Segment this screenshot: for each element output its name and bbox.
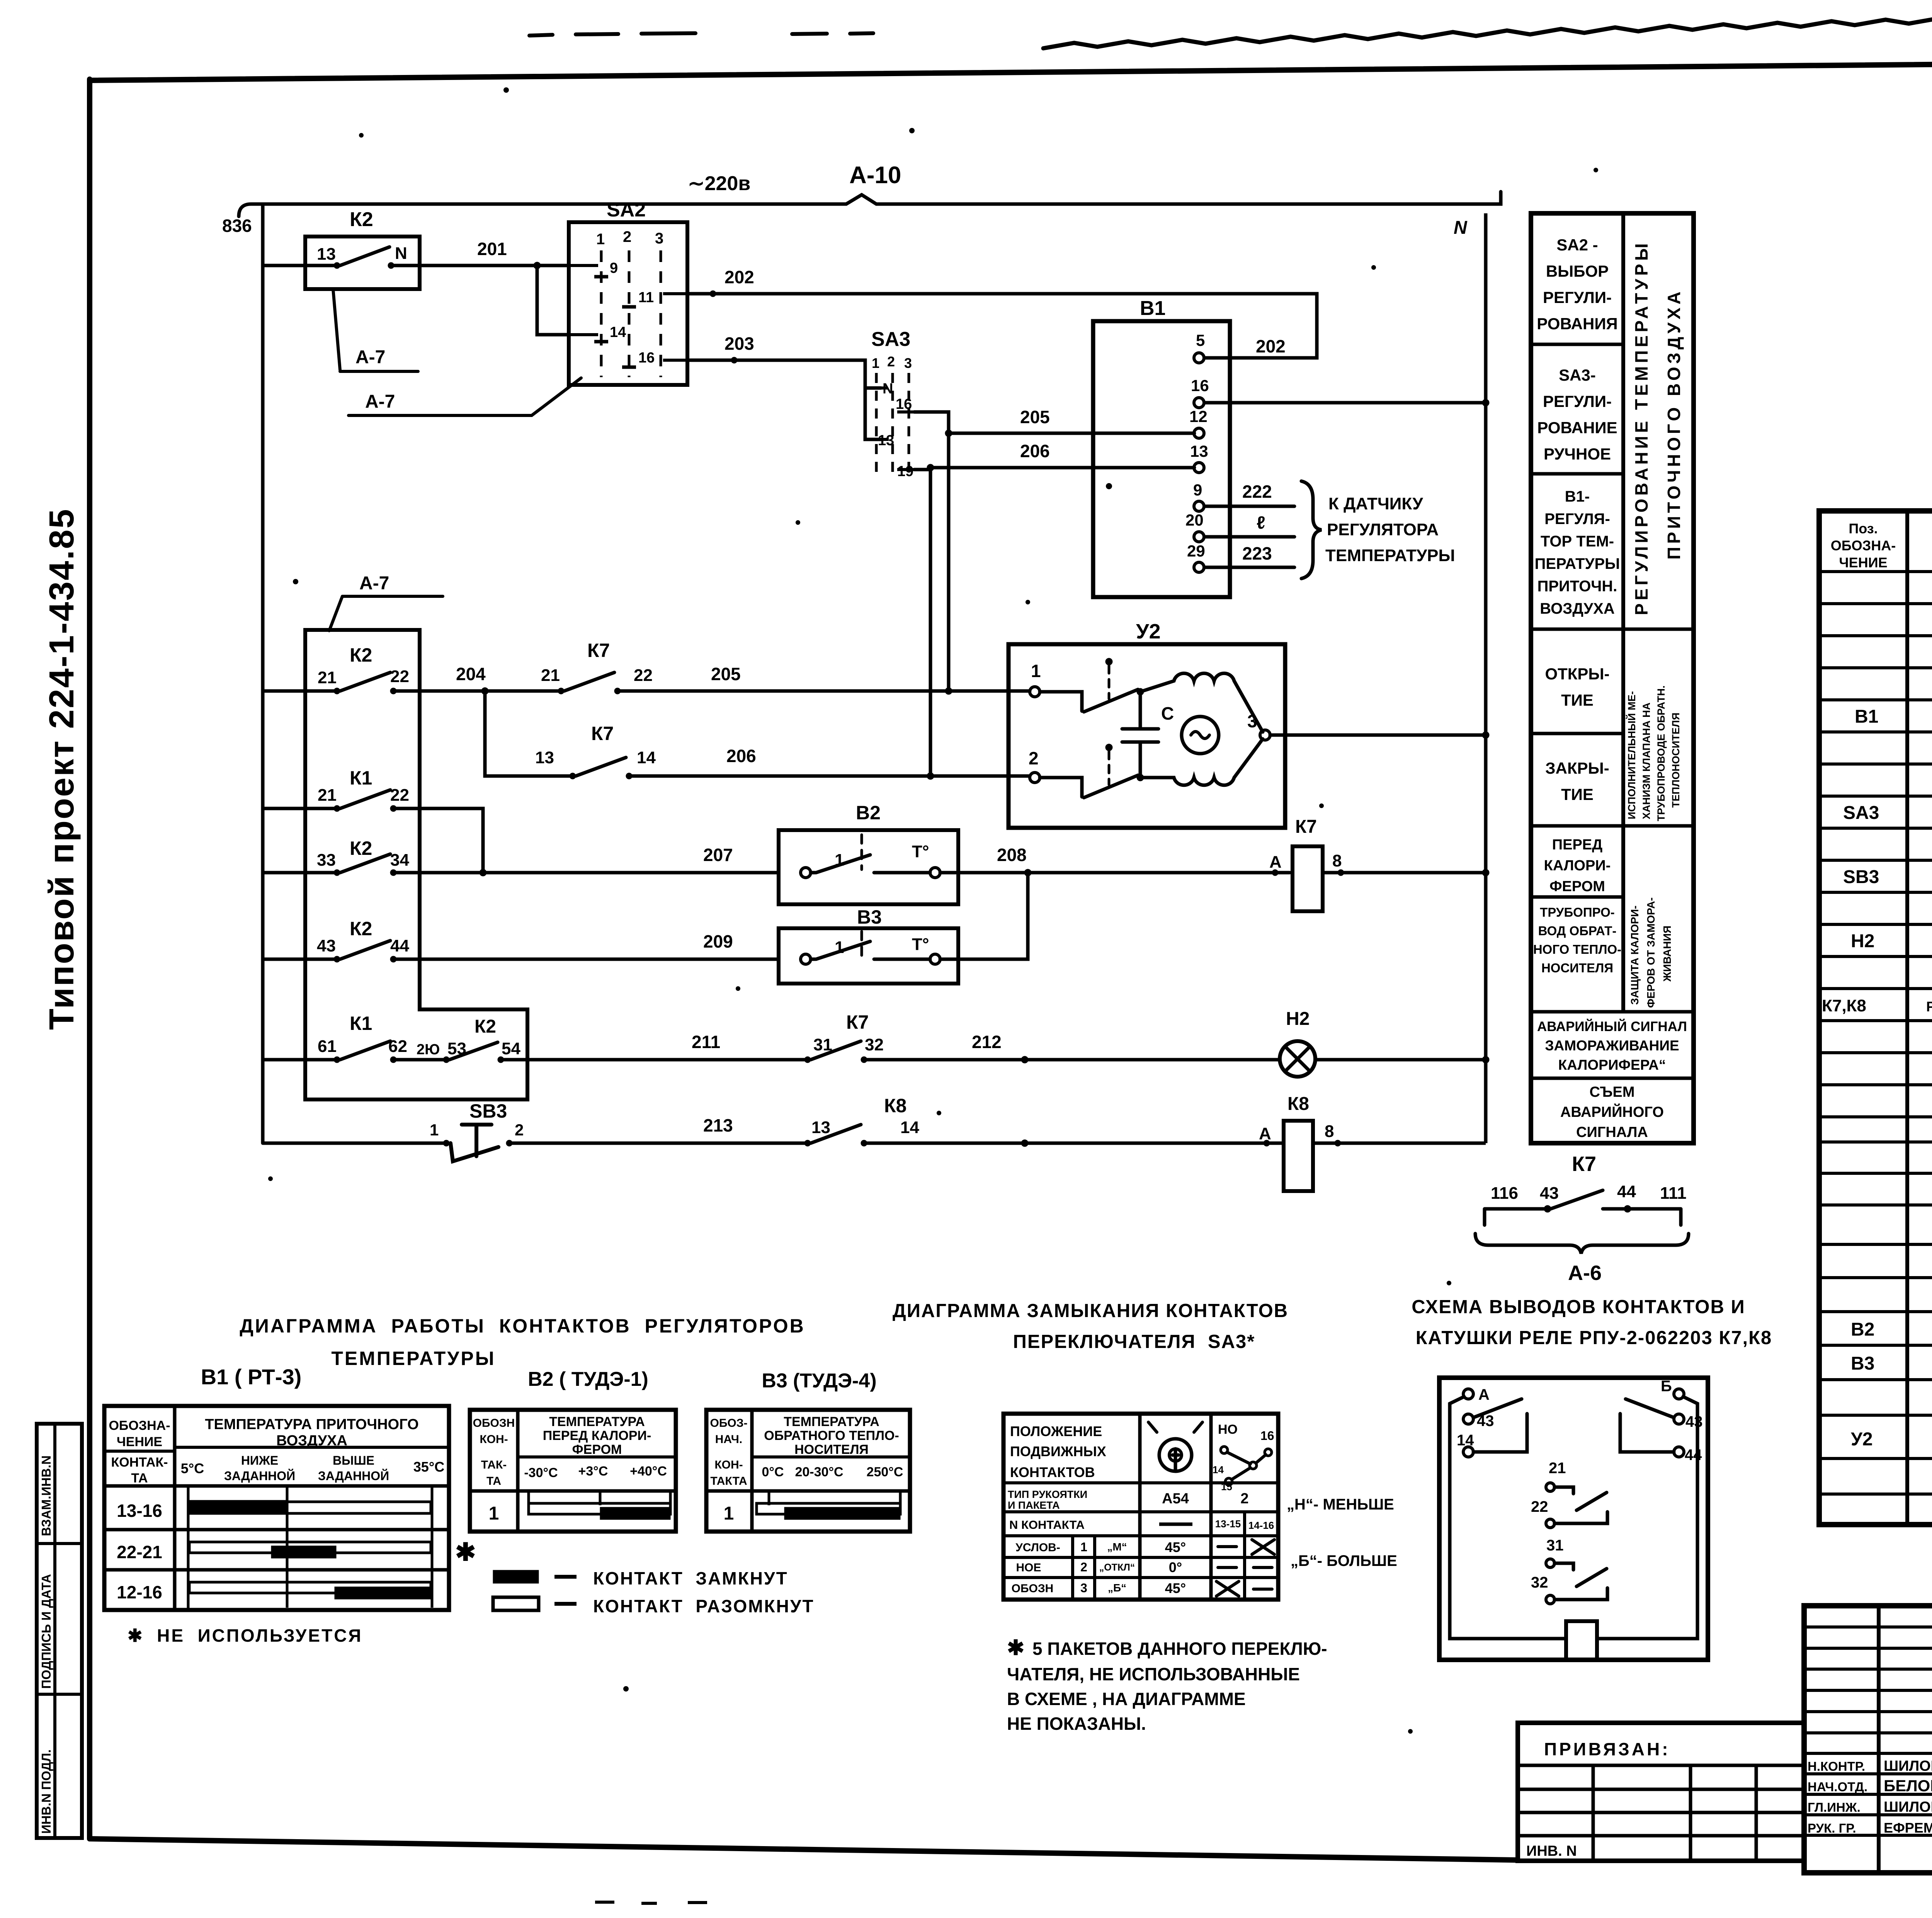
svg-text:Н.КОНТР.: Н.КОНТР.: [1808, 1759, 1865, 1773]
svg-text:SA3: SA3: [871, 328, 910, 351]
svg-text:ЗАМОРАЖИВАНИЕ: ЗАМОРАЖИВАНИЕ: [1545, 1038, 1679, 1053]
svg-text:РЕГУЛИРОВАНИЕ ТЕМПЕРАТУРЫ: РЕГУЛИРОВАНИЕ ТЕМПЕРАТУРЫ: [1631, 240, 1651, 615]
svg-text:ДИАГРАММА РАБОТЫ КОНТАКТОВ: ДИАГРАММА РАБОТЫ КОНТАКТОВ РЕГУЛЯТОРОВ: [240, 1315, 805, 1337]
svg-text:СИГНАЛА: СИГНАЛА: [1576, 1124, 1648, 1140]
parts row SB3: [1843, 867, 1932, 887]
svg-text:ВЗАМ.ИНВ.N: ВЗАМ.ИНВ.N: [39, 1455, 53, 1536]
parts row U2: [1851, 1421, 1932, 1452]
label N: [1454, 218, 1468, 238]
label 2: [515, 1121, 524, 1139]
svg-text:ТОР ТЕМ-: ТОР ТЕМ-: [1541, 533, 1614, 550]
B1 pin numbers: [1185, 331, 1209, 560]
annotation column frame: [1531, 213, 1694, 1143]
svg-text:В1-: В1-: [1565, 488, 1590, 505]
svg-text:2: 2: [887, 354, 895, 369]
svg-text:22: 22: [1531, 1498, 1548, 1515]
wire left bus 836: [261, 204, 265, 1143]
label 44: [390, 936, 409, 955]
relay contact box K2 (13-N): [305, 237, 420, 289]
svg-text:ПРИВЯЗАН:: ПРИВЯЗАН:: [1544, 1739, 1670, 1759]
pushbutton SB3 row 213: [263, 1125, 808, 1161]
svg-text:206: 206: [726, 746, 756, 766]
svg-text:ТЕМПЕРАТУРА: ТЕМПЕРАТУРА: [549, 1414, 645, 1429]
label 201: [477, 239, 507, 259]
svg-text:ЧАТЕЛЯ, НЕ ИСПОЛЬЗОВАННЫЕ: ЧАТЕЛЯ, НЕ ИСПОЛЬЗОВАННЫЕ: [1007, 1664, 1300, 1684]
svg-text:ФЕРОВ ОТ ЗАМОРА-: ФЕРОВ ОТ ЗАМОРА-: [1645, 897, 1657, 1008]
svg-text:ПОЛОЖЕНИЕ: ПОЛОЖЕНИЕ: [1010, 1423, 1102, 1439]
svg-text:А-7: А-7: [365, 391, 395, 412]
svg-text:В1: В1: [1140, 297, 1165, 320]
svg-text:45°: 45°: [1165, 1580, 1186, 1596]
U2 pin 1 and contact: [1030, 658, 1138, 712]
SA2 column numbers 1 2 3: [596, 228, 663, 248]
svg-text:ТЕМПЕРАТУРА ПРИТОЧНОГО: ТЕМПЕРАТУРА ПРИТОЧНОГО: [205, 1416, 418, 1433]
svg-text:КАЛОРИ-: КАЛОРИ-: [1544, 858, 1611, 874]
svg-text:К8: К8: [1287, 1094, 1309, 1114]
label 22: [634, 666, 653, 685]
heading Диаграмма работы контактов регуляторов: [240, 1315, 805, 1369]
svg-text:ИСПОЛНИТЕЛЬНЫЙ МЕ-: ИСПОЛНИТЕЛЬНЫЙ МЕ-: [1626, 691, 1638, 819]
svg-text:203: 203: [724, 334, 754, 354]
svg-text:21: 21: [1549, 1460, 1566, 1477]
svg-text:КОН-: КОН-: [714, 1458, 743, 1471]
SA3 row тип рукоятки: [1008, 1489, 1249, 1511]
svg-text:205: 205: [711, 664, 741, 684]
svg-text:РЕЛЕ РПУ-2-062203∼220в 50ГЦ ТУ: РЕЛЕ РПУ-2-062203∼220в 50ГЦ ТУ16-523.331…: [1926, 999, 1932, 1014]
label 21: [318, 786, 337, 805]
svg-text:∼220в: ∼220в: [688, 172, 750, 195]
svg-text:201: 201: [477, 239, 507, 259]
SA3 pin labels N 16 13 19: [878, 381, 913, 480]
svg-text:Н2: Н2: [1286, 1009, 1310, 1029]
label 836: [222, 216, 252, 236]
svg-text:КОНТАКТ РАЗОМКНУТ: КОНТАКТ РАЗОМКНУТ: [593, 1596, 815, 1616]
svg-text:НО: НО: [1218, 1422, 1238, 1437]
svg-text:УСЛОВ-: УСЛОВ-: [1015, 1541, 1060, 1554]
svg-text:ТИЕ: ТИЕ: [1561, 785, 1594, 803]
label A-10: [849, 162, 901, 189]
svg-text:ПОДВИЖНЫХ: ПОДВИЖНЫХ: [1010, 1443, 1106, 1459]
labels 222 C 223: [1242, 482, 1272, 563]
svg-text:ТЕПЛОНОСИТЕЛЯ: ТЕПЛОНОСИТЕЛЯ: [1670, 713, 1682, 808]
label A: [1259, 1124, 1271, 1143]
svg-text:43: 43: [1477, 1413, 1494, 1430]
svg-text:ЧЕНИЕ: ЧЕНИЕ: [1839, 555, 1887, 570]
legend контакт разомкнут: [493, 1597, 577, 1610]
svg-text:ОТКРЫ-: ОТКРЫ-: [1545, 665, 1609, 683]
svg-text:29: 29: [1187, 542, 1205, 560]
svg-text:22-21: 22-21: [117, 1542, 162, 1562]
table B3: [706, 1410, 910, 1532]
relay pinout box K7 K8: [1439, 1378, 1708, 1660]
svg-text:СХЕМА ВЫВОДОВ КОНТАКТОВ И: СХЕМА ВЫВОДОВ КОНТАКТОВ И: [1412, 1297, 1745, 1317]
legend text разомкнут: [593, 1596, 815, 1616]
B1 pins: [1194, 353, 1204, 572]
svg-text:53: 53: [447, 1039, 466, 1058]
note не используется: [128, 1625, 362, 1646]
svg-text:14-16: 14-16: [1248, 1520, 1274, 1531]
svg-text:SA2: SA2: [607, 199, 646, 221]
svg-text:31: 31: [1546, 1537, 1564, 1554]
svg-text:ПРИТОЧН.: ПРИТОЧН.: [1537, 578, 1617, 595]
svg-text:SВ3: SВ3: [469, 1100, 507, 1122]
U2 pin 3: [1260, 730, 1489, 740]
svg-text:А-6: А-6: [1568, 1261, 1602, 1285]
svg-text:К7,К8: К7,К8: [1822, 996, 1866, 1015]
svg-text:8: 8: [1325, 1122, 1334, 1141]
svg-text:К1: К1: [350, 767, 372, 789]
svg-text:35°С: 35°С: [413, 1459, 444, 1475]
svg-text:К7: К7: [591, 723, 614, 744]
wire 202 from SA2: [687, 291, 1317, 358]
label K1: [350, 767, 372, 789]
svg-text:„М“: „М“: [1107, 1541, 1127, 1553]
svg-text:К7: К7: [1572, 1152, 1596, 1176]
svg-text:33: 33: [317, 851, 336, 870]
svg-text:НОСИТЕЛЯ: НОСИТЕЛЯ: [794, 1442, 869, 1457]
label 211: [692, 1032, 720, 1052]
motor winding bottom: [1140, 739, 1263, 785]
label N: [395, 244, 407, 263]
svg-text:32: 32: [865, 1035, 884, 1054]
svg-text:ХАНИЗМ КЛАПАНА НА: ХАНИЗМ КЛАПАНА НА: [1641, 703, 1652, 819]
svg-text:РЕГУЛЯТОРА: РЕГУЛЯТОРА: [1327, 520, 1439, 539]
label 209: [703, 931, 733, 951]
svg-text:SА2 -: SА2 -: [1556, 236, 1598, 254]
svg-text:ПЕРЕД КАЛОРИ-: ПЕРЕД КАЛОРИ-: [543, 1428, 651, 1443]
svg-text:ЧЕНИЕ: ЧЕНИЕ: [117, 1435, 162, 1449]
svg-text:12: 12: [1189, 407, 1207, 425]
svg-text:211: 211: [692, 1032, 720, 1052]
svg-text:ДИАГРАММА ЗАМЫКАНИЯ КОНТАКТОВ: ДИАГРАММА ЗАМЫКАНИЯ КОНТАКТОВ: [893, 1300, 1288, 1321]
heading Диаграмма замыкания контактов SA3: [893, 1300, 1288, 1352]
svg-text:206: 206: [1020, 441, 1050, 461]
svg-text:1: 1: [1080, 1540, 1087, 1554]
motor symbol: [1182, 716, 1219, 754]
svg-text:„ОТКЛ“: „ОТКЛ“: [1099, 1562, 1135, 1573]
label 33: [317, 851, 336, 870]
table B2 bars: [529, 1491, 670, 1520]
svg-text:ВЫБОР: ВЫБОР: [1546, 262, 1609, 280]
SA3 column numbers: [872, 354, 912, 371]
svg-text:✱ НЕ ИСПОЛЬЗУЕТСЯ: ✱ НЕ ИСПОЛЬЗУЕТСЯ: [128, 1625, 362, 1646]
annotation rotated: защита калориферов: [1629, 897, 1673, 1008]
svg-text:ТЕМПЕРАТУРА: ТЕМПЕРАТУРА: [784, 1414, 879, 1429]
svg-text:19: 19: [897, 463, 913, 480]
U2 pin 2 and contact: [1030, 744, 1138, 798]
label 31: [813, 1035, 832, 1054]
svg-text:С: С: [1161, 703, 1174, 723]
svg-text:ЗАЩИТА КАЛОРИ-: ЗАЩИТА КАЛОРИ-: [1629, 905, 1641, 1005]
labels B 43 44: [1661, 1378, 1703, 1464]
svg-text:К2: К2: [474, 1016, 496, 1037]
svg-text:НАЧ.ОТД.: НАЧ.ОТД.: [1808, 1780, 1867, 1794]
motor winding top: [1140, 673, 1263, 732]
label B2: [856, 802, 881, 824]
label SA2: [607, 199, 646, 221]
svg-text:ТАКТА: ТАКТА: [710, 1475, 747, 1487]
svg-text:1: 1: [835, 851, 844, 870]
label 1: [1031, 661, 1041, 681]
label 2: [1029, 748, 1039, 768]
label 14: [637, 748, 656, 767]
svg-text:Поз.: Поз.: [1849, 521, 1878, 536]
svg-text:ОБОЗНА-: ОБОЗНА-: [1831, 538, 1896, 553]
margin stamp strip: [37, 1424, 82, 1838]
svg-text:213: 213: [703, 1115, 733, 1135]
annotation Закрытие: [1545, 759, 1609, 803]
thermostat B3: [779, 873, 1028, 984]
svg-text:ТА: ТА: [131, 1471, 148, 1486]
lamp H2: [1280, 1041, 1489, 1077]
label K7: [587, 640, 610, 661]
svg-text:ПРИТОЧНОГО ВОЗДУХА: ПРИТОЧНОГО ВОЗДУХА: [1664, 289, 1684, 560]
annotation SA3: [1537, 366, 1617, 463]
svg-text:2Ю: 2Ю: [417, 1042, 440, 1058]
svg-text:ИНВ.N ПОДЛ.: ИНВ.N ПОДЛ.: [39, 1750, 53, 1834]
parts row B2: [1851, 1319, 1932, 1340]
svg-text:К ДАТЧИКУ: К ДАТЧИКУ: [1328, 494, 1423, 513]
label K2: [474, 1016, 496, 1037]
annotation Аварийный сигнал: [1537, 1019, 1687, 1073]
label 62: [388, 1037, 407, 1056]
svg-text:2: 2: [1240, 1491, 1248, 1507]
parts table frame: [1819, 511, 1932, 1525]
svg-text:И ПАКЕТА: И ПАКЕТА: [1008, 1499, 1060, 1511]
svg-text:А: А: [1259, 1124, 1271, 1143]
svg-text:43: 43: [1685, 1413, 1703, 1430]
table SA3 positions: [1003, 1414, 1278, 1600]
label B3 (ТУДЭ-4): [762, 1370, 876, 1392]
contact K7 116-43 44-111: [1485, 1190, 1681, 1225]
label A-7: [359, 573, 389, 594]
svg-text:А-10: А-10: [849, 162, 901, 189]
svg-text:НАЧ.: НАЧ.: [715, 1433, 742, 1446]
svg-text:АВАРИЙНЫЙ СИГНАЛ: АВАРИЙНЫЙ СИГНАЛ: [1537, 1019, 1687, 1034]
pinout contact 21-22: [1546, 1483, 1607, 1528]
relay coil K7: [1272, 846, 1489, 911]
svg-text:К8: К8: [884, 1095, 906, 1116]
svg-text:В1 ( РТ-3): В1 ( РТ-3): [201, 1365, 302, 1389]
svg-text:250°С: 250°С: [867, 1465, 903, 1479]
label K1: [350, 1013, 372, 1034]
capacitor C: [1122, 688, 1158, 781]
contact K2 21-22 row 204: [263, 672, 558, 694]
table B3 row: [724, 1503, 734, 1524]
svg-text:БЕЛОВ: БЕЛОВ: [1884, 1777, 1932, 1795]
svg-text:НОГО ТЕПЛО-: НОГО ТЕПЛО-: [1533, 942, 1621, 956]
annotation Открытие: [1545, 665, 1609, 709]
table B2: [470, 1410, 676, 1532]
contact K7 13-14 row 206: [485, 691, 1030, 779]
label 14: [900, 1118, 919, 1137]
svg-text:ОБОЗН: ОБОЗН: [1012, 1582, 1054, 1595]
svg-text:61: 61: [318, 1037, 337, 1056]
reference line A-7 (to SA2): [349, 378, 581, 415]
contact K2 13-N: [263, 247, 537, 269]
svg-text:„Н“- МЕНЬШЕ: „Н“- МЕНЬШЕ: [1287, 1496, 1394, 1513]
pinout contact 31-32: [1546, 1559, 1607, 1604]
svg-text:РЕГУЛИ-: РЕГУЛИ-: [1543, 392, 1612, 410]
thermostat B2: [779, 830, 1290, 904]
svg-text:54: 54: [502, 1039, 520, 1058]
svg-text:ТИП РУКОЯТКИ: ТИП РУКОЯТКИ: [1008, 1489, 1087, 1500]
svg-text:5: 5: [1196, 331, 1205, 349]
annotation rotated: регулирование температуры приточного воздуха: [1631, 240, 1684, 615]
svg-text:836: 836: [222, 216, 252, 236]
svg-text:НОСИТЕЛЯ: НОСИТЕЛЯ: [1541, 961, 1613, 975]
svg-text:14: 14: [610, 324, 626, 340]
svg-text:N: N: [395, 244, 407, 263]
svg-text:14: 14: [1213, 1464, 1224, 1476]
label K2: [350, 644, 372, 666]
label 212: [972, 1032, 1002, 1052]
label ~220v: [688, 172, 750, 195]
svg-text:РЕГУЛЯ-: РЕГУЛЯ-: [1544, 511, 1610, 528]
label A-7: [355, 347, 385, 368]
svg-text:РУК. ГР.: РУК. ГР.: [1808, 1821, 1856, 1835]
svg-text:ВОД ОБРАТ-: ВОД ОБРАТ-: [1538, 924, 1617, 938]
svg-text:ФЕРОМ: ФЕРОМ: [572, 1442, 622, 1457]
label 213: [703, 1115, 733, 1135]
brace to sensor: [1301, 481, 1321, 579]
svg-text:0°С: 0°С: [762, 1465, 784, 1479]
svg-text:В3 (ТУДЭ-4): В3 (ТУДЭ-4): [762, 1370, 876, 1392]
label K7: [1572, 1152, 1596, 1176]
svg-text:КОН-: КОН-: [480, 1433, 508, 1446]
table B1 bars row 12-16: [189, 1582, 431, 1599]
svg-text:31: 31: [813, 1035, 832, 1054]
label 3: [1247, 711, 1257, 731]
svg-text:Н2: Н2: [1851, 931, 1874, 951]
wire bus ~220V A-10: [239, 192, 1501, 216]
svg-text:К2: К2: [350, 918, 372, 939]
svg-text:SА3: SА3: [1843, 803, 1879, 823]
svg-text:1: 1: [1031, 661, 1041, 681]
svg-text:21: 21: [318, 786, 337, 805]
label 210: [417, 1042, 440, 1058]
svg-text:ЗАКРЫ-: ЗАКРЫ-: [1545, 759, 1609, 777]
svg-text:13-16: 13-16: [117, 1501, 162, 1521]
svg-text:208: 208: [997, 845, 1027, 865]
svg-text:111: 111: [1660, 1184, 1687, 1203]
legend text замкнут: [593, 1568, 788, 1588]
label K2: [350, 918, 372, 939]
svg-text:32: 32: [1531, 1574, 1548, 1591]
svg-text:43: 43: [317, 936, 336, 955]
SA3 rotary switch symbol: [1148, 1422, 1202, 1471]
label 206: [1020, 441, 1050, 461]
svg-text:14: 14: [1457, 1432, 1474, 1449]
label 21: [318, 668, 337, 687]
svg-text:22: 22: [390, 786, 409, 805]
legend контакт замкнут: [493, 1570, 577, 1583]
label 13: [535, 748, 554, 767]
SA3 symbol labels: [1213, 1422, 1274, 1493]
svg-text:В2: В2: [856, 802, 881, 824]
svg-text:43: 43: [1540, 1184, 1559, 1203]
switch SA2: [569, 222, 687, 385]
wire N bus: [1484, 213, 1488, 1143]
svg-text:РУЧНОЕ: РУЧНОЕ: [1544, 445, 1611, 463]
svg-text:ℓ: ℓ: [1257, 512, 1265, 533]
reference line A-7 (lower): [329, 596, 443, 631]
svg-text:ОБОЗНА-: ОБОЗНА-: [109, 1418, 170, 1433]
label 1: [835, 938, 844, 957]
title block frame: [1804, 1606, 1932, 1873]
contact K1 61-62 and K2 53-54 row: [263, 1041, 808, 1063]
contact K1 21-22: [263, 790, 483, 873]
label 205: [1020, 407, 1050, 427]
svg-text:А: А: [1478, 1386, 1490, 1403]
title block signatures column: [1808, 1758, 1932, 1836]
svg-text:ШИЛОВ: ШИЛОВ: [1884, 1799, 1932, 1815]
svg-text:ТРУБОПРО-: ТРУБОПРО-: [1540, 905, 1615, 919]
svg-text:3: 3: [904, 355, 912, 371]
svg-text:3: 3: [1080, 1581, 1087, 1595]
table B1 PT-3: [104, 1406, 449, 1610]
wire 203 from SA2: [687, 357, 881, 439]
svg-text:ГЛ.ИНЖ.: ГЛ.ИНЖ.: [1808, 1800, 1861, 1814]
parts row H2: [1851, 931, 1932, 951]
svg-text:22: 22: [390, 667, 409, 686]
contact K7 21-22: [558, 672, 1030, 694]
svg-text:ТРУБОПРОВОДЕ ОБРАТН.: ТРУБОПРОВОДЕ ОБРАТН.: [1655, 686, 1667, 821]
svg-text:ВОЗДУХА: ВОЗДУХА: [276, 1433, 347, 1449]
svg-text:ФЕРОМ: ФЕРОМ: [1549, 878, 1605, 895]
svg-text:9: 9: [1193, 481, 1202, 499]
svg-text:К7: К7: [587, 640, 610, 661]
parts row B1: [1855, 706, 1932, 727]
note 5 пакетов: [1007, 1636, 1327, 1734]
svg-text:22: 22: [634, 666, 653, 685]
actuator U2: [1009, 644, 1285, 828]
svg-text:SА3-: SА3-: [1559, 366, 1596, 384]
labels 116 43 44 111: [1491, 1182, 1687, 1203]
label SB3: [469, 1100, 507, 1122]
label T°: [912, 842, 929, 861]
svg-text:1: 1: [430, 1121, 439, 1139]
svg-text:ШИЛОВ: ШИЛОВ: [1884, 1758, 1932, 1774]
relay coil K8: [1264, 1121, 1486, 1191]
table B3 header: [710, 1414, 903, 1487]
SA3 row N контакта: [1009, 1518, 1274, 1532]
table B1 header text: [109, 1416, 444, 1486]
label B1: [1140, 297, 1165, 320]
svg-text:2: 2: [1029, 748, 1039, 768]
label K7: [1295, 817, 1317, 837]
svg-text:ВЫШЕ: ВЫШЕ: [333, 1453, 374, 1467]
label B1 (РТ-3): [201, 1365, 302, 1389]
label 43: [317, 936, 336, 955]
svg-text:ВОЗДУХА: ВОЗДУХА: [1540, 600, 1615, 617]
notes Н-меньше Б-больше: [1287, 1496, 1397, 1569]
svg-text:13: 13: [878, 432, 894, 449]
labels 31 32: [1531, 1537, 1564, 1591]
svg-text:В3: В3: [1851, 1353, 1874, 1374]
svg-text:20-30°С: 20-30°С: [795, 1465, 843, 1479]
svg-text:16: 16: [638, 350, 655, 366]
svg-text:В1: В1: [1855, 706, 1878, 727]
contact K8 13-14: [804, 1125, 1284, 1147]
svg-text:НОЕ: НОЕ: [1016, 1561, 1041, 1574]
svg-text:В2: В2: [1851, 1319, 1874, 1340]
svg-text:2: 2: [623, 228, 631, 245]
regulator B1: [1093, 321, 1230, 597]
margin stamp strip labels: [39, 1455, 53, 1834]
label 1: [835, 851, 844, 870]
label U2: [1136, 620, 1161, 643]
